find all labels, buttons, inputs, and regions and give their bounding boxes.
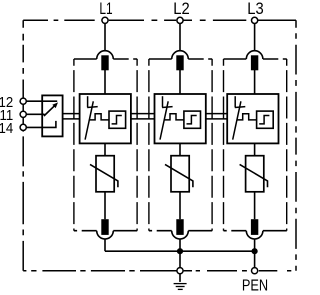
svg-text:PEN: PEN	[242, 277, 268, 295]
svg-text:L1: L1	[99, 0, 112, 19]
svg-text:L2: L2	[173, 0, 190, 18]
svg-text:L3: L3	[247, 0, 264, 18]
svg-text:14: 14	[0, 120, 13, 137]
